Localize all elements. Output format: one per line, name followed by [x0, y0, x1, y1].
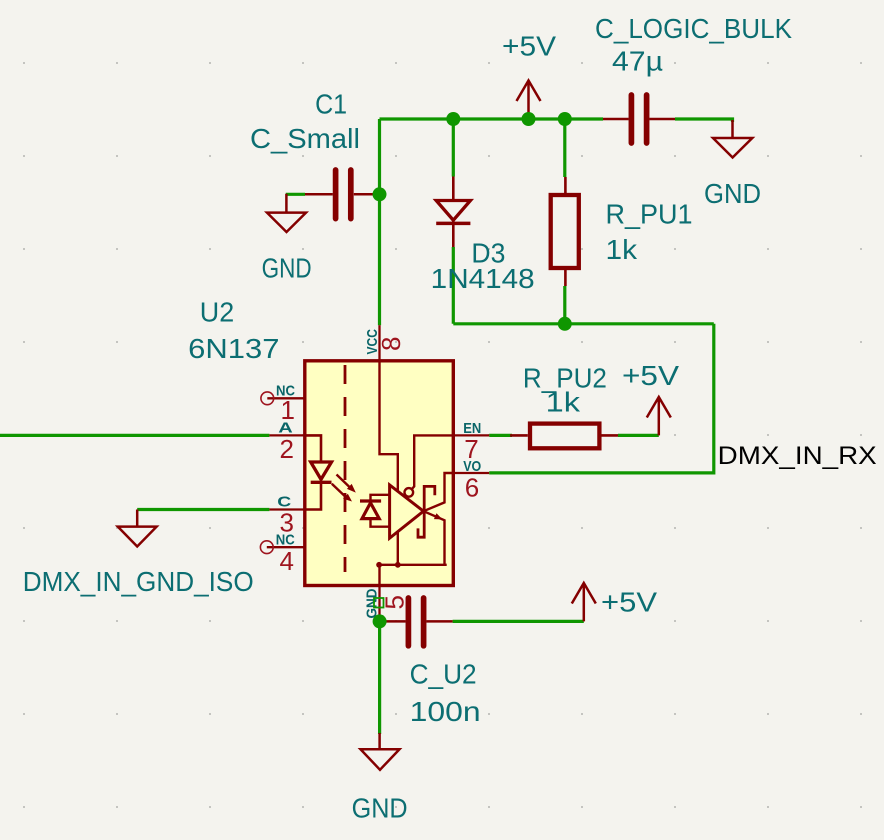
wire vertical C1/VCC column: [378, 119, 381, 325]
junction top D3: [446, 112, 460, 126]
wire C_LOGIC_BULK right to GND: [675, 119, 733, 122]
pin 3 C: [269, 494, 304, 538]
internal ground rail: [376, 562, 447, 586]
svg-text:C_LOGIC_BULK: C_LOGIC_BULK: [595, 13, 792, 44]
pin 7 EN: [453, 420, 489, 464]
svg-text:C_Small: C_Small: [250, 123, 360, 154]
wire D3 top: [452, 119, 455, 177]
wire C1 left stub: [286, 193, 305, 196]
op-amp U2 6N137 body: [188, 297, 453, 586]
photodiode inside U2: [360, 495, 389, 527]
diode D3 1N4148: [431, 177, 535, 295]
svg-text:U2: U2: [200, 297, 234, 328]
wire D3 bottom: [452, 247, 455, 324]
ground at C_U2 bottom: [352, 733, 408, 824]
capacitor C1: [250, 89, 380, 219]
junction mid R_PU1: [558, 317, 572, 331]
pin 8 VCC: [364, 325, 406, 361]
pin 2 A: [269, 420, 304, 464]
svg-text:DMX_IN_RX: DMX_IN_RX: [718, 442, 877, 470]
svg-text:1k: 1k: [606, 234, 639, 265]
svg-text:GND: GND: [364, 588, 381, 618]
wire pin5 to GND: [378, 621, 381, 734]
svg-text:100n: 100n: [410, 696, 481, 727]
wire R_PU1 top: [563, 119, 566, 177]
wire C_U2 right to +5V: [453, 620, 584, 623]
wire EN to R_PU2: [489, 434, 512, 437]
wire mid horizontal: [453, 322, 714, 325]
capacitor C_LOGIC_BULK: [595, 13, 792, 143]
svg-text:R_PU1: R_PU1: [606, 199, 693, 230]
svg-text:GND: GND: [704, 178, 761, 209]
transistor collector to VO: [424, 473, 454, 511]
pin 6 VO: [453, 458, 489, 503]
enable line and bubble: [405, 435, 454, 496]
svg-text:4: 4: [280, 546, 294, 576]
ground top right: [704, 120, 761, 209]
ground DMX_IN_GND_ISO: [23, 510, 254, 598]
svg-text:47µ: 47µ: [612, 46, 663, 77]
junction top +5V: [522, 112, 536, 126]
junction top R_PU1: [558, 112, 572, 126]
svg-text:1N4148: 1N4148: [431, 263, 535, 294]
amplifier triangle inside U2: [390, 485, 424, 538]
wire pin3 C net: [137, 508, 269, 511]
svg-text:6: 6: [465, 473, 479, 503]
svg-text:2: 2: [280, 434, 294, 464]
output hysteresis bar: [418, 486, 435, 537]
resistor R_PU2: [510, 362, 618, 448]
svg-text:C1: C1: [315, 89, 347, 120]
ground at C1: [262, 194, 312, 284]
VCC internal rail: [380, 361, 398, 565]
wire right vertical to VO: [489, 324, 714, 473]
svg-text:+5V: +5V: [622, 360, 679, 391]
pin 4 NC: [260, 532, 304, 577]
pin 5 GND: [364, 586, 410, 621]
svg-text:1k: 1k: [546, 386, 581, 417]
LED inside U2: [305, 435, 332, 509]
svg-text:8: 8: [376, 337, 406, 351]
wire pin2 A net: [0, 434, 269, 437]
transistor emitter with arrow: [424, 511, 445, 565]
junction C1: [373, 187, 387, 201]
power +5V at R_PU2: [622, 360, 679, 436]
wire top horizontal +5V rail: [380, 117, 604, 120]
wire R_PU2 to +5V: [618, 434, 659, 437]
resistor R_PU1: [551, 177, 693, 286]
power +5V at C_U2: [572, 583, 658, 621]
svg-text:+5V: +5V: [601, 587, 657, 618]
isolation dashed line: [344, 365, 347, 572]
svg-text:GND: GND: [352, 793, 408, 824]
svg-text:+5V: +5V: [502, 31, 556, 62]
light arrow 1: [337, 475, 356, 493]
wire R_PU1 bottom: [563, 286, 566, 324]
pin 1 NC: [261, 383, 305, 426]
svg-text:DMX_IN_GND_ISO: DMX_IN_GND_ISO: [23, 566, 254, 597]
svg-text:GND: GND: [262, 253, 312, 284]
power +5V top: [502, 31, 556, 120]
junction pin5: [373, 614, 387, 628]
capacitor C_U2: [385, 598, 481, 727]
svg-text:6N137: 6N137: [188, 333, 279, 364]
svg-text:C_U2: C_U2: [410, 659, 477, 690]
light arrow 2: [332, 484, 352, 502]
